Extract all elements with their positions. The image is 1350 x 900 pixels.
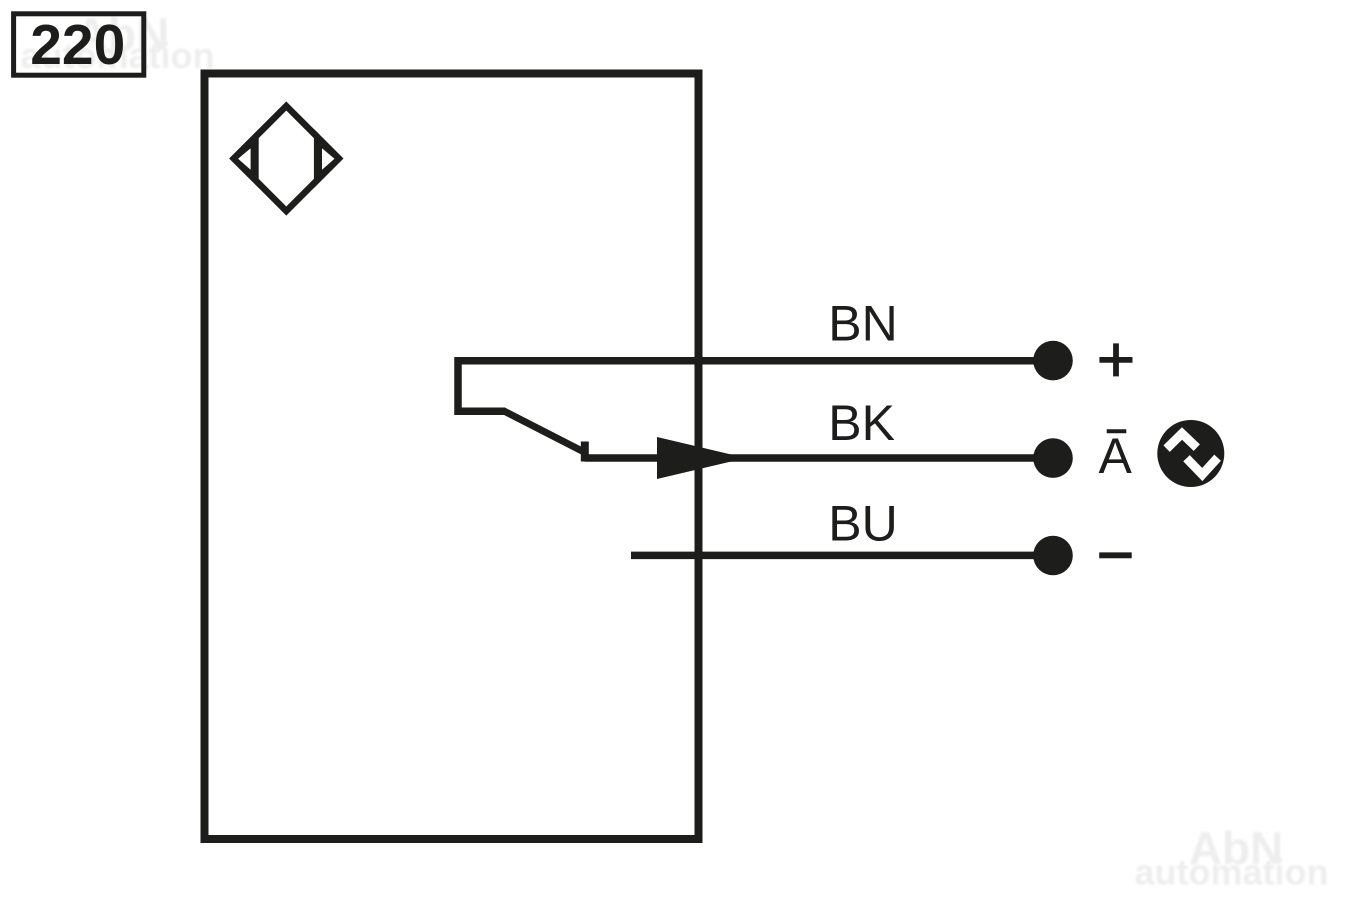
- svg-text:BN: BN: [828, 296, 897, 352]
- logo down chevron: [1187, 458, 1218, 475]
- switch blade: [503, 411, 585, 453]
- svg-text:A: A: [1099, 428, 1133, 484]
- logo circle: [1157, 420, 1224, 487]
- watermark AbN bottom-right: [1135, 822, 1329, 893]
- terminal dot BN: [1033, 341, 1073, 381]
- sensor body rectangle: [205, 74, 699, 840]
- figure number box 220: [14, 14, 144, 75]
- terminal dot BK: [1033, 438, 1073, 478]
- plus terminal sign: [1099, 343, 1132, 376]
- svg-text:BU: BU: [828, 495, 897, 551]
- terminal dot BU: [1033, 536, 1073, 576]
- proximity sensor symbol: diamond: [234, 106, 339, 211]
- wire BN with internal connection: [458, 361, 1053, 412]
- logo up chevron: [1167, 434, 1197, 449]
- wire BK: [585, 454, 1053, 462]
- watermark AbN top-left: [21, 8, 215, 76]
- svg-text:220: 220: [30, 13, 125, 77]
- proximity symbol left triangle cutout (white): [238, 148, 251, 169]
- wire BU: [631, 552, 1053, 560]
- proximity symbol right triangle cutout (white): [322, 148, 335, 169]
- overline of A: [1107, 429, 1127, 433]
- proximity symbol right triangle (black): [314, 129, 344, 188]
- contact tick: [581, 442, 589, 462]
- minus terminal sign: [1099, 552, 1132, 558]
- proximity symbol left triangle (black): [229, 129, 259, 188]
- output arrow on BK wire: [657, 437, 746, 479]
- svg-text:BK: BK: [828, 395, 895, 451]
- svg-text:automation: automation: [1135, 852, 1329, 893]
